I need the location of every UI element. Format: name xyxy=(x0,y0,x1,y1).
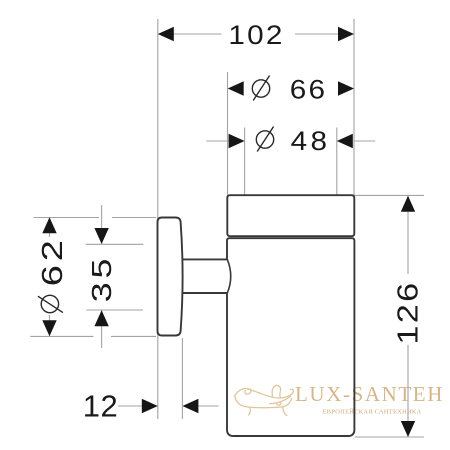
extension line 35 top y=244.3 xyxy=(86,243,144,245)
svg-text:66: 66 xyxy=(290,75,327,105)
arrow d66 right xyxy=(338,81,354,95)
arrows xyxy=(42,27,415,437)
svg-text:62: 62 xyxy=(36,236,69,286)
arrow 102 right xyxy=(338,27,354,41)
extension line 62 bottom y=336.4 xyxy=(30,335,93,337)
svg-text:ЕВРОПЕЙСКАЯ САНТЕХНИКА: ЕВРОПЕЙСКАЯ САНТЕХНИКА xyxy=(323,408,422,416)
arrow 12 right xyxy=(182,399,198,413)
arrow d48 left xyxy=(229,134,245,148)
arrow 62 bottom xyxy=(42,320,56,336)
part outline: cup rim xyxy=(227,195,354,236)
dimension line 35 verticals xyxy=(101,205,103,244)
dimension line 102 xyxy=(172,33,222,35)
arrow 126 top xyxy=(401,196,415,212)
extension line wall left x=157.8 xyxy=(157,19,159,419)
leader lines d48 xyxy=(206,140,228,142)
extension line cup left x=227.5 xyxy=(227,72,229,195)
extension line d48 left x=244.6 xyxy=(244,128,246,196)
arrow 126 bottom xyxy=(401,421,415,437)
part outline: holder arm top edge xyxy=(182,258,228,260)
diameter symbol for 48 xyxy=(256,127,273,152)
part outline: arm end bulge at cup xyxy=(227,259,230,293)
part outline: wall plate xyxy=(158,218,183,336)
svg-text:12: 12 xyxy=(83,389,118,424)
extension line 62 top y=217.5 xyxy=(34,217,100,219)
dimension line 62 verticals xyxy=(49,218,51,238)
extension line right x=354 xyxy=(353,19,355,195)
arrow 12 left xyxy=(142,399,158,413)
arrow d48 right xyxy=(337,134,353,148)
extension line plate front x=182.4 xyxy=(181,338,183,419)
extension line 126 top y=195.4 xyxy=(354,194,424,196)
svg-text:35: 35 xyxy=(86,255,117,303)
diameter symbol for 62 rotated xyxy=(38,295,63,312)
extension line d48 right x=336.8 xyxy=(336,128,338,196)
svg-text:126: 126 xyxy=(391,280,424,344)
arrow d66 left xyxy=(228,81,244,95)
arrow 35 bottom xyxy=(94,310,108,326)
watermark bathtub icon xyxy=(235,385,294,415)
part outline: holder arm bottom edge xyxy=(182,292,227,294)
diameter symbol for 66 xyxy=(252,76,269,101)
arrow 62 top xyxy=(42,217,56,233)
part outline: cup body xyxy=(227,238,354,436)
svg-text:102: 102 xyxy=(228,20,284,50)
extension line 126 bottom y=437 xyxy=(355,436,424,438)
arrow 102 left xyxy=(158,27,174,41)
svg-text:48: 48 xyxy=(291,126,331,156)
leader lines 12 xyxy=(118,405,142,407)
svg-text:LUX-SANTEH: LUX-SANTEH xyxy=(295,382,444,406)
extension line 35 bottom y=310 xyxy=(86,309,143,311)
arrow 35 top xyxy=(94,228,108,244)
dimension line 126 verticals xyxy=(407,196,409,274)
